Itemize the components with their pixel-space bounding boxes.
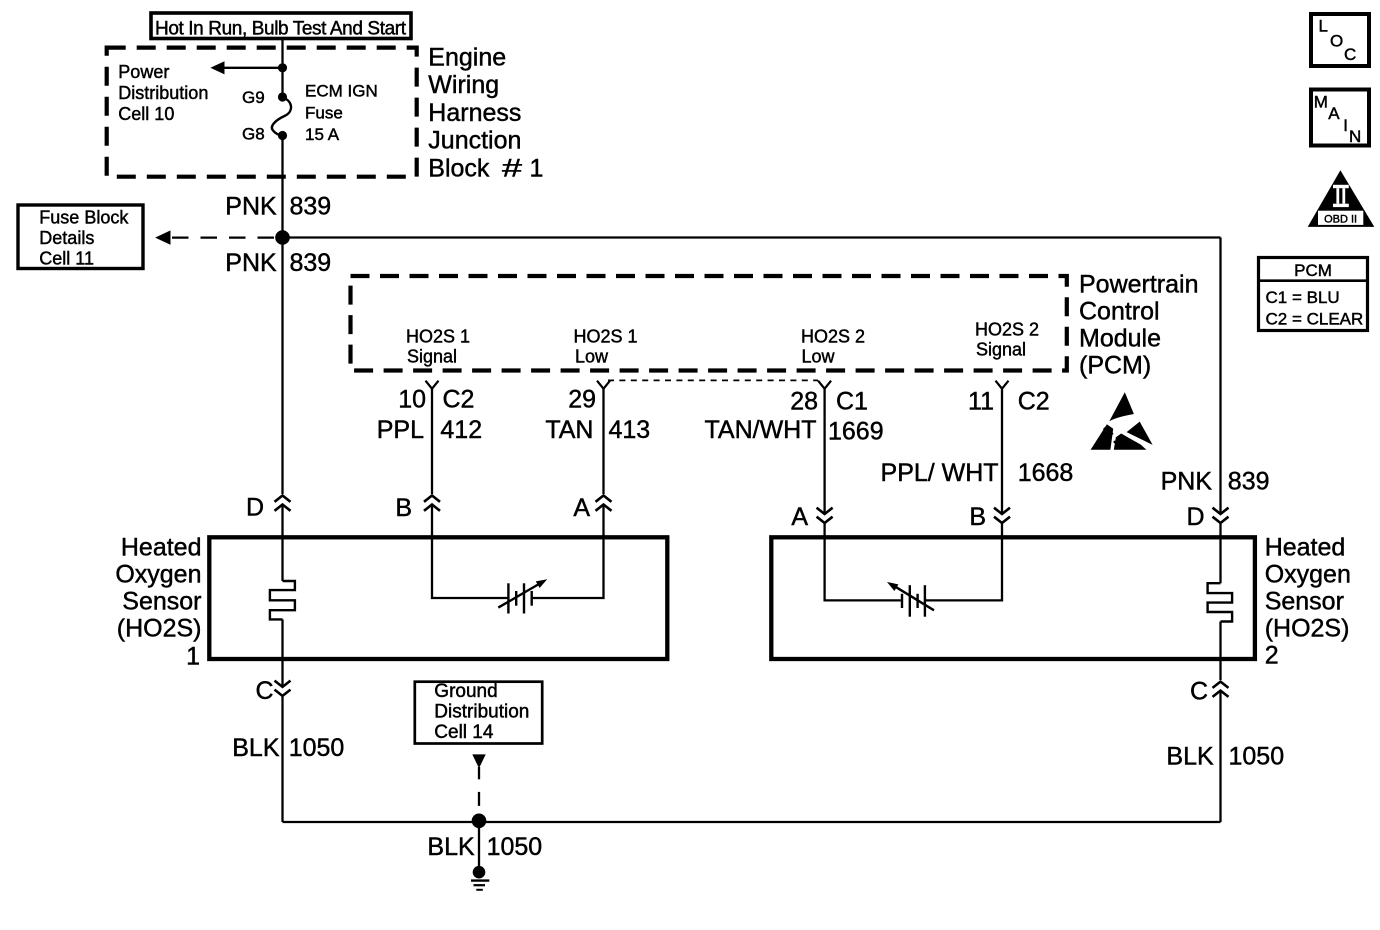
svg-text:C2: C2 — [443, 386, 475, 414]
svg-text:A: A — [573, 494, 590, 522]
wire: TAN 413 from pin 29 down — [602, 389, 604, 494]
ground reference arrow (dashed) — [472, 754, 485, 768]
svg-text:Low: Low — [575, 347, 609, 367]
svg-text:839: 839 — [290, 193, 332, 221]
svg-text:C: C — [1190, 678, 1208, 706]
svg-text:C1 = BLU: C1 = BLU — [1266, 288, 1340, 307]
svg-text:Control: Control — [1079, 297, 1160, 325]
svg-text:PNK: PNK — [1161, 468, 1213, 496]
svg-text:15 A: 15 A — [305, 125, 340, 144]
connector pin 11 (C2) of U1 — [996, 381, 1009, 389]
connector pin 29 of U1 — [597, 381, 610, 389]
box: Engine Wiring Harness Junction Block #1 (dashed) — [107, 48, 417, 177]
wire: pin D into HO2S1 heater — [281, 505, 283, 582]
svg-text:1669: 1669 — [828, 418, 884, 446]
wire: BLK 1050 from HO2S1 pin C down — [281, 696, 283, 822]
symbol: MAIN reference box — [1311, 90, 1369, 147]
svg-text:Module: Module — [1079, 324, 1161, 352]
terminal chevrons: HO2S2 pin C (up pair) — [1213, 682, 1229, 697]
wire: PNK 839 from fuse G8 down to splice — [281, 136, 283, 238]
svg-text:Fuse: Fuse — [305, 104, 343, 123]
sensor cell element in HO2S1 (variable) — [498, 579, 547, 613]
wire: HO2S1 heater to pin C — [281, 619, 283, 686]
terminal chevrons: HO2S2 pin B (down pair) — [994, 508, 1010, 523]
wire: pin D into HO2S2 heater — [1219, 523, 1221, 583]
symbol: LOC reference box — [1311, 14, 1369, 66]
svg-text:Oxygen: Oxygen — [115, 561, 201, 589]
svg-text:B: B — [969, 503, 986, 531]
terminal chevrons: HO2S1 pin C (down pair) — [275, 681, 291, 696]
op-amp/PCM box: Powertrain Control Module (dashed) — [351, 276, 1067, 371]
label box: Ground Distribution Cell 14 — [415, 682, 542, 744]
svg-text:1050: 1050 — [487, 833, 543, 861]
svg-text:Power: Power — [118, 62, 169, 82]
svg-text:#: # — [502, 154, 522, 182]
wire: pin B down inside HO2S2 — [926, 523, 1002, 600]
svg-text:Harness: Harness — [428, 99, 521, 127]
svg-text:BLK: BLK — [232, 734, 280, 762]
svg-text:(HO2S): (HO2S) — [1265, 615, 1350, 643]
svg-text:N: N — [1349, 127, 1361, 146]
svg-text:Hot In Run, Bulb Test And Star: Hot In Run, Bulb Test And Start — [155, 18, 407, 39]
svg-text:A: A — [791, 503, 808, 531]
svg-text:D: D — [1186, 503, 1204, 531]
svg-text:839: 839 — [290, 249, 332, 277]
wire: BLK 1050 bottom bus — [283, 821, 1221, 823]
svg-text:M: M — [1314, 93, 1328, 112]
wire: thin dashed link between pin 29 and pin 28 connectors — [608, 379, 818, 381]
svg-text:L: L — [1319, 17, 1328, 36]
svg-text:Powertrain: Powertrain — [1079, 270, 1199, 298]
svg-text:PPL: PPL — [377, 416, 424, 444]
symbol: OBD II triangle — [1308, 170, 1375, 227]
svg-text:Cell 14: Cell 14 — [434, 722, 494, 743]
svg-text:Distribution: Distribution — [434, 702, 529, 723]
svg-text:(HO2S): (HO2S) — [117, 615, 202, 643]
fuse F1: ECM IGN Fuse 15 A — [272, 92, 291, 140]
svg-text:Cell 10: Cell 10 — [118, 104, 174, 124]
terminal chevrons: HO2S1 pin D (up pair) — [275, 496, 291, 511]
node: BLK 1050 ground splice — [472, 814, 487, 829]
wire: pin A down inside HO2S1 — [533, 505, 604, 599]
wire: PNK 839 down left to HO2S 1 pin D — [281, 238, 283, 495]
node: power distribution tap junction — [278, 63, 287, 72]
svg-text:(PCM): (PCM) — [1079, 351, 1151, 379]
svg-text:BLK: BLK — [427, 833, 475, 861]
wire: TAN/WHT 1669 from pin 28 down — [823, 389, 825, 514]
svg-text:413: 413 — [609, 416, 651, 444]
svg-text:PCM: PCM — [1294, 261, 1332, 280]
svg-text:Engine: Engine — [428, 44, 506, 72]
wire: splice to ground G103 — [478, 821, 480, 867]
wire: PPL/WHT 1668 from pin 11 down — [1001, 389, 1003, 514]
heater element R1 in HO2S1 — [270, 581, 295, 619]
svg-text:C: C — [255, 677, 273, 705]
node: PNK 839 splice S1 — [275, 230, 290, 245]
ground G103 — [471, 866, 489, 890]
svg-text:OBD II: OBD II — [1324, 213, 1357, 225]
terminal chevrons: HO2S1 pin A (up pair) — [596, 496, 612, 511]
svg-text:TAN: TAN — [545, 416, 593, 444]
wire: dashed reference arrow to Fuse Block Details — [172, 236, 274, 238]
label box: Fuse Block Details Cell 11 — [18, 205, 143, 269]
svg-text:C2: C2 — [1018, 388, 1050, 416]
svg-text:B: B — [395, 494, 412, 522]
svg-text:1: 1 — [186, 643, 200, 671]
connector pin 10 (C2) of U1 — [426, 381, 439, 389]
svg-text:Low: Low — [802, 347, 836, 367]
wire: PNK 839 down right to HO2S 2 pin D — [1219, 238, 1221, 514]
svg-text:412: 412 — [440, 416, 482, 444]
svg-text:BLK: BLK — [1166, 743, 1214, 771]
svg-text:D: D — [246, 494, 264, 522]
svg-text:C1: C1 — [836, 388, 868, 416]
svg-text:HO2S 1: HO2S 1 — [574, 327, 638, 347]
wire: pin B down inside HO2S1 — [432, 505, 508, 599]
svg-text:O: O — [1330, 32, 1343, 51]
svg-text:Details: Details — [39, 228, 94, 248]
svg-text:2: 2 — [1265, 642, 1279, 670]
svg-text:Distribution: Distribution — [118, 83, 208, 103]
svg-text:C: C — [1344, 45, 1356, 64]
component box: Heated Oxygen Sensor HO2S 2 — [771, 537, 1255, 659]
svg-text:Signal: Signal — [976, 340, 1026, 360]
svg-text:G8: G8 — [242, 125, 265, 144]
wire: junction to fuse terminal G9 — [281, 68, 283, 97]
svg-text:G9: G9 — [242, 88, 265, 107]
svg-text:HO2S 2: HO2S 2 — [801, 327, 865, 347]
svg-text:C2 = CLEAR: C2 = CLEAR — [1266, 310, 1364, 329]
svg-text:839: 839 — [1228, 468, 1270, 496]
label box: Hot In Run, Bulb Test And Start — [151, 13, 411, 39]
svg-text:11: 11 — [968, 388, 994, 416]
svg-text:29: 29 — [568, 386, 596, 414]
svg-text:Wiring: Wiring — [428, 71, 499, 99]
svg-text:TAN/WHT: TAN/WHT — [704, 416, 816, 444]
wire: arrow to Power Distribution Cell 10 — [222, 67, 283, 69]
terminal chevrons: HO2S1 pin B (up pair) — [424, 496, 440, 511]
svg-text:Fuse Block: Fuse Block — [39, 208, 129, 228]
svg-text:PNK: PNK — [225, 193, 277, 221]
svg-text:1050: 1050 — [1229, 743, 1285, 771]
svg-text:Heated: Heated — [1265, 534, 1346, 562]
terminal chevrons: HO2S2 pin A (down pair) — [817, 508, 833, 523]
svg-text:Heated: Heated — [121, 534, 202, 562]
svg-text:Oxygen: Oxygen — [1265, 561, 1351, 589]
svg-text:Sensor: Sensor — [1265, 588, 1344, 616]
wire: PNK 839 horizontal bus to HO2S 2 — [283, 236, 1221, 238]
svg-text:HO2S 1: HO2S 1 — [406, 327, 470, 347]
svg-text:Signal: Signal — [407, 347, 457, 367]
svg-text:1668: 1668 — [1018, 459, 1074, 487]
terminal chevrons: HO2S2 pin D (down pair) — [1213, 508, 1229, 523]
svg-text:Block: Block — [428, 154, 490, 182]
svg-text:1050: 1050 — [289, 734, 345, 762]
svg-text:Cell 11: Cell 11 — [39, 249, 94, 269]
connector pin 28 (C1) of U1 — [818, 381, 831, 389]
svg-text:Junction: Junction — [428, 127, 521, 155]
svg-text:1: 1 — [530, 154, 544, 182]
svg-text:HO2S 2: HO2S 2 — [975, 320, 1039, 340]
wire: PPL 412 from pin 10 down — [431, 389, 433, 494]
svg-text:Sensor: Sensor — [122, 588, 201, 616]
svg-text:Ground: Ground — [434, 681, 497, 702]
wire: BLK 1050 from HO2S2 pin C down — [1219, 691, 1221, 822]
svg-text:PPL/ WHT: PPL/ WHT — [881, 459, 999, 487]
symbol: PCM connector legend table — [1259, 258, 1368, 331]
sensor cell element in HO2S2 (variable) — [887, 582, 934, 617]
svg-text:ECM IGN: ECM IGN — [305, 82, 378, 101]
component box: Heated Oxygen Sensor HO2S 1 — [209, 537, 667, 659]
svg-text:PNK: PNK — [225, 249, 277, 277]
svg-text:I: I — [1343, 116, 1348, 135]
wire: HO2S2 heater to pin C — [1219, 622, 1221, 681]
ESD symbol: electrostatic discharge sensitive device — [1091, 392, 1153, 450]
wire: fuse feed from Hot box down into junction block — [281, 39, 283, 68]
svg-text:10: 10 — [398, 386, 426, 414]
wire: pin A down inside HO2S2 — [825, 523, 901, 600]
heater element R2 in HO2S2 — [1208, 583, 1233, 621]
svg-text:A: A — [1328, 104, 1340, 123]
svg-text:28: 28 — [790, 388, 818, 416]
